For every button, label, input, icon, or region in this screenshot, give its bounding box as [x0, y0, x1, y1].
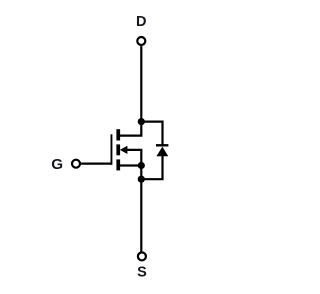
wire source node to anode node: [140, 166, 142, 180]
cathode bar of D1: [156, 144, 168, 146]
wire drain node to MOSFET drain lead: [120, 122, 141, 136]
drain electrode bar of Q1: [116, 129, 120, 140]
body electrode bar of Q1: [116, 144, 120, 155]
junction drain node: [138, 118, 145, 125]
terminal D: [137, 37, 145, 45]
body arrow of Q1: [120, 146, 128, 154]
terminal G: [72, 160, 80, 168]
svg-text:G: G: [51, 156, 63, 173]
transistor Q1 N-channel MOSFET: [111, 129, 128, 170]
svg-text:S: S: [137, 264, 147, 280]
wire anode node to S terminal: [140, 179, 142, 252]
wire source lead: [120, 164, 141, 166]
gate line of Q1: [111, 134, 113, 165]
wire body lead to source node: [127, 150, 142, 166]
anode triangle of D1: [156, 147, 168, 157]
wire G terminal to gate: [81, 163, 111, 165]
wire drain node to diode cathode: [141, 122, 162, 145]
diode D1 body diode: [156, 144, 168, 156]
wire D terminal to drain node: [140, 46, 142, 122]
terminal S: [138, 252, 146, 260]
wire anode node to diode anode: [141, 156, 162, 179]
svg-text:D: D: [136, 14, 146, 30]
source electrode bar of Q1: [116, 159, 120, 170]
junction anode node: [138, 176, 145, 183]
junction source node: [138, 162, 145, 169]
